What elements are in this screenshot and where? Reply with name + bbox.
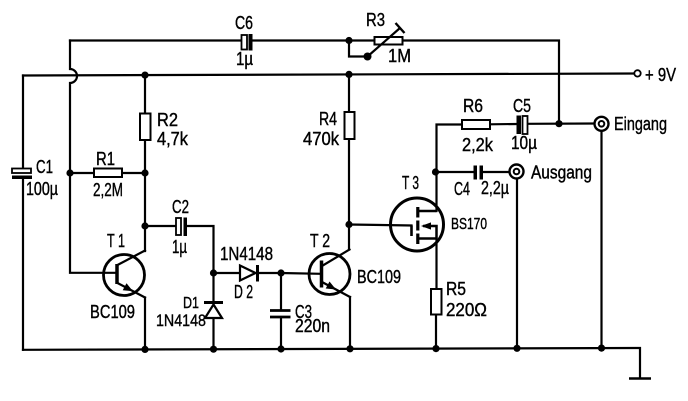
wire T3 gate lead (349, 225, 412, 226)
junction ground rail C3 (277, 345, 284, 352)
wire node-A vertical x=70 upper with hop over supply rail (70, 41, 77, 174)
junction R1 right / R2 bottom (141, 169, 148, 176)
junction ground rail T2 emitter (346, 345, 353, 352)
capacitor C6 electrolytic plates (242, 34, 253, 51)
wire C5 right to Eingang jack (528, 122, 595, 125)
junction C2 tap on collector line (141, 222, 148, 229)
junction D2 anode / D1 / C2 (210, 269, 217, 276)
terminal +9V (634, 70, 640, 76)
svg-text:Eingang: Eingang (614, 114, 667, 134)
wire Eingang jack sleeve to ground rail (600, 131, 602, 348)
wire T1 emitter to ground rail (144, 298, 146, 350)
svg-text:220n: 220n (295, 316, 330, 336)
svg-text:C1: C1 (36, 157, 53, 177)
wire T3 drain vertical up to R6 node (437, 125, 463, 212)
svg-text:4,7k: 4,7k (157, 129, 189, 149)
wire R1 left (70, 172, 94, 174)
wire C3 bottom lead (280, 318, 282, 349)
junction ground rail T1 emitter (141, 346, 148, 353)
svg-text:1µ: 1µ (172, 237, 187, 257)
jack Eingang (595, 117, 609, 131)
svg-text:T 3: T 3 (402, 173, 419, 193)
transistor T2 BC109 (309, 254, 350, 295)
junction ground rail Eingang sleeve (598, 345, 605, 352)
transistor T3 BS170 mosfet (391, 198, 444, 251)
wire C4 left from drain node (436, 171, 474, 173)
wire C2 right down to D-node (187, 226, 214, 273)
wire +9V supply rail y=74 (23, 74, 635, 76)
svg-text:+ 9V: + 9V (645, 65, 676, 85)
wire R3 arrow T-bar (396, 23, 405, 33)
svg-text:2,2M: 2,2M (93, 180, 123, 200)
wire bottom ground rail with ground drop (23, 348, 640, 378)
wire D2 cathode lead (258, 272, 281, 274)
wire T2 emitter diagonal (322, 282, 350, 297)
svg-text:R4: R4 (319, 109, 337, 129)
junction ground rail R5 (432, 345, 439, 352)
wire R2 bottom to collector node (144, 140, 146, 251)
svg-text:10µ: 10µ (511, 133, 537, 153)
wire left rail x=23 upper (22, 76, 24, 169)
junction ground rail Ausgang sleeve (513, 345, 520, 352)
junction C4 left on drain line (432, 168, 439, 175)
svg-text:BC109: BC109 (90, 302, 135, 322)
ground symbol bar (629, 377, 651, 380)
capacitor C1 electrolytic plates (12, 169, 32, 180)
capacitor C3 plates (270, 311, 291, 318)
diode D2 (240, 265, 258, 282)
svg-text:2,2µ: 2,2µ (481, 178, 509, 198)
wire D2 anode lead (214, 272, 241, 274)
svg-text:R5: R5 (446, 279, 466, 299)
wire T2 emitter to ground rail (349, 297, 351, 349)
wire C2 left (145, 225, 176, 227)
svg-text:T 2: T 2 (310, 231, 330, 251)
jack Ausgang (510, 165, 524, 179)
svg-text:BS170: BS170 (451, 216, 487, 233)
wire R4 bottom to gate node (348, 139, 350, 225)
wire R2 top from supply rail (144, 75, 146, 113)
wire D1 top lead (212, 273, 214, 301)
junction ground rail D1 (210, 346, 217, 353)
junction R3 left terminal on top line (345, 37, 352, 44)
junction C5 right / Eingang node (555, 120, 562, 127)
svg-text:220Ω: 220Ω (446, 300, 487, 320)
wire R3 wiper tie (349, 41, 368, 57)
junction D2 cathode / C3 / T2 base (277, 269, 284, 276)
capacitor C5 electrolytic plates (517, 116, 528, 135)
wire R1 right (122, 172, 145, 174)
wire R5 bottom to ground rail (435, 315, 437, 349)
svg-text:D1: D1 (183, 295, 199, 312)
wire T3 source vertical down to R5 (435, 239, 437, 290)
resistor R1 body (94, 169, 122, 178)
resistor R4 body (345, 112, 355, 139)
svg-text:R3: R3 (366, 10, 385, 30)
wire top feedback line y=40 (70, 39, 241, 41)
wire C3 top lead (280, 273, 282, 309)
junction R3 wiper (364, 53, 372, 61)
resistor R6 body (462, 120, 490, 129)
resistor R5 body (431, 289, 442, 315)
svg-text:1µ: 1µ (236, 49, 253, 69)
wire R4 top from supply rail (348, 74, 350, 112)
resistor R2 body (140, 114, 151, 141)
capacitor C2 electrolytic plates (176, 218, 187, 237)
svg-text:C2: C2 (172, 197, 189, 217)
wire node-A vertical x=70 lower to T1 base (70, 173, 116, 273)
capacitor C4 plates (474, 166, 484, 180)
wire R6 right to C5 (490, 123, 517, 126)
wire T1 emitter diagonal (118, 283, 146, 298)
junction node A / R1 left (66, 169, 73, 176)
diode D1 (204, 303, 223, 319)
svg-text:C5: C5 (513, 96, 531, 116)
wire T2 collector diagonal (322, 250, 350, 267)
junction R4 top on supply rail (345, 71, 352, 78)
svg-text:R1: R1 (96, 149, 115, 169)
wire T1 collector diagonal (118, 251, 146, 266)
transistor T1 BC109 (104, 255, 145, 296)
junction R2 top on supply rail (141, 72, 148, 79)
svg-text:R6: R6 (463, 96, 483, 116)
svg-text:100µ: 100µ (26, 179, 58, 199)
wire left rail x=23 lower (22, 179, 24, 350)
wire Ausgang jack sleeve to ground rail (516, 179, 518, 349)
svg-text:1N4148: 1N4148 (220, 244, 273, 264)
wire top line right of C6 to corner and down to input node (253, 41, 559, 123)
wire R3 wiper arrow diagonal (368, 28, 401, 57)
wire T2 collector vertical (348, 225, 350, 250)
svg-text:T 1: T 1 (107, 231, 125, 251)
junction R4 bottom / T3 gate / T2 collector (345, 221, 352, 228)
svg-text:1N4148: 1N4148 (156, 311, 206, 330)
wire T2 base (281, 272, 320, 275)
svg-text:R2: R2 (157, 110, 178, 130)
resistor R3 potentiometer body (375, 37, 403, 45)
svg-text:C4: C4 (454, 179, 470, 199)
svg-text:C6: C6 (235, 13, 253, 33)
wire D1 bottom lead (212, 318, 214, 349)
svg-text:D 2: D 2 (234, 282, 253, 302)
svg-text:Ausgang: Ausgang (531, 163, 592, 183)
svg-text:2,2k: 2,2k (462, 135, 494, 155)
wire C4 right to Ausgang jack (484, 171, 510, 173)
svg-text:1M: 1M (388, 46, 411, 66)
svg-text:BC109: BC109 (357, 267, 401, 287)
svg-text:470k: 470k (303, 129, 340, 149)
